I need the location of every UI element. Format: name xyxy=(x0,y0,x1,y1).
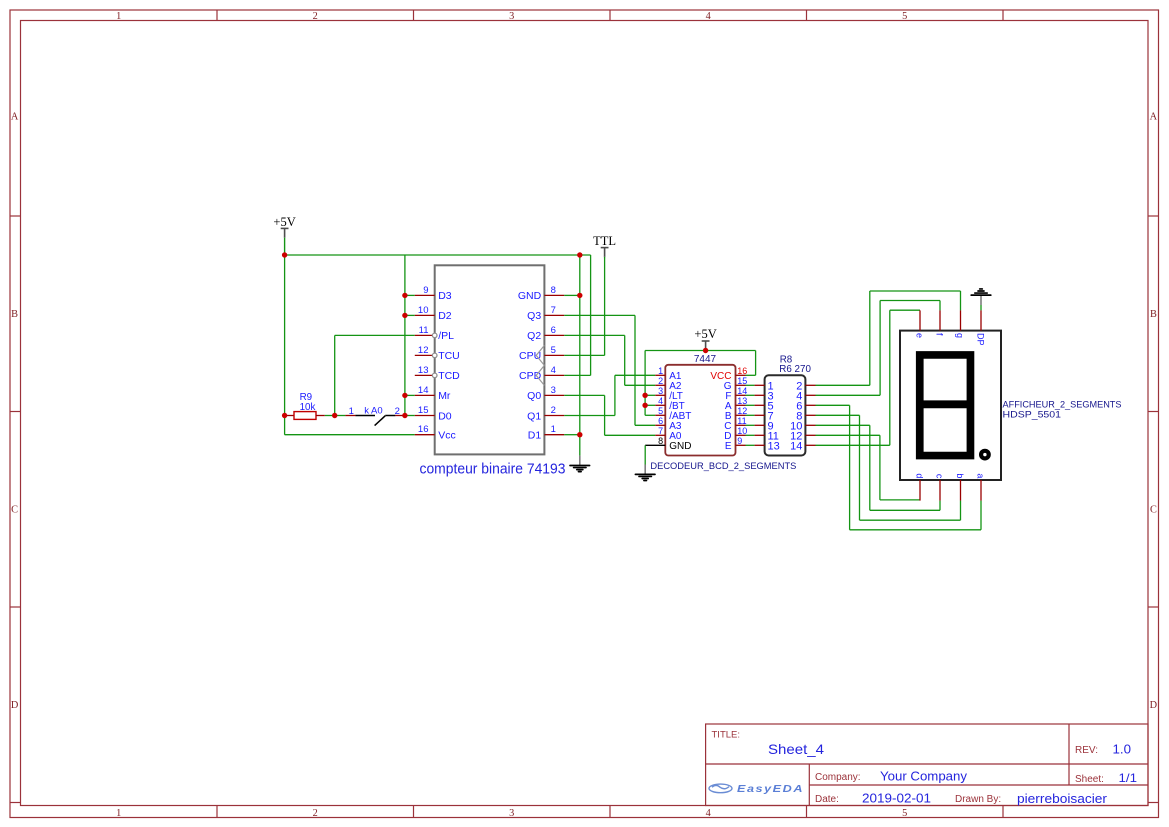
7447 left pin 2 A2 xyxy=(655,384,665,386)
wire pin12 to d xyxy=(816,434,880,436)
wire switch left joint xyxy=(335,415,346,417)
display top pin f xyxy=(939,310,941,330)
display bottom pin c xyxy=(939,480,941,501)
wire +5V horizontal top xyxy=(285,254,591,256)
display top pin e xyxy=(919,310,921,330)
junction xyxy=(577,252,582,257)
svg-text:1: 1 xyxy=(349,406,354,417)
svg-text:2019-02-01: 2019-02-01 xyxy=(862,791,931,806)
svg-text:Mr: Mr xyxy=(438,390,451,402)
74193 left pin 12 TCU xyxy=(415,354,435,356)
74193 clock chevron CPD xyxy=(536,365,544,385)
junction xyxy=(332,413,337,418)
svg-text:Sheet:: Sheet: xyxy=(1075,774,1104,785)
wire 7447 pin to network row 6 xyxy=(746,434,755,436)
svg-text:13: 13 xyxy=(737,396,747,406)
svg-text:CPU: CPU xyxy=(519,350,541,362)
7447 left pin 5 /ABT xyxy=(655,414,665,416)
display bottom pin b xyxy=(960,480,962,501)
wire switch to D0 xyxy=(405,415,415,417)
svg-text:Company:: Company: xyxy=(815,772,861,783)
svg-text:Sheet_4: Sheet_4 xyxy=(768,741,824,757)
74193 left pin 13 TCD xyxy=(415,374,435,376)
svg-text:TCD: TCD xyxy=(438,370,460,382)
wire vertical switch to /PL xyxy=(334,335,336,415)
wire Q1 to A1 xyxy=(564,415,615,417)
svg-text:10: 10 xyxy=(737,426,747,436)
wire D3 stub xyxy=(405,294,415,296)
svg-text:/PL: /PL xyxy=(438,330,454,342)
svg-text:11: 11 xyxy=(737,416,746,426)
svg-text:5: 5 xyxy=(658,406,663,416)
svg-text:1/1: 1/1 xyxy=(1119,771,1138,785)
svg-text:1: 1 xyxy=(116,11,121,22)
svg-text:GND: GND xyxy=(669,441,691,452)
display top pin DP xyxy=(980,310,982,330)
svg-text:C: C xyxy=(11,505,18,516)
74193 right pin 6 Q2 xyxy=(544,334,564,336)
svg-text:compteur binaire 74193: compteur binaire 74193 xyxy=(420,462,566,478)
74193 right pin 4 CPD xyxy=(544,374,564,376)
svg-text:6: 6 xyxy=(658,416,663,426)
74193 right pin 1 D1 xyxy=(544,434,564,436)
wire D2 stub xyxy=(405,314,415,316)
74193 left pin 9 D3 xyxy=(415,294,435,296)
svg-text:Q2: Q2 xyxy=(527,330,541,342)
svg-text:+5V: +5V xyxy=(694,327,716,341)
svg-text:Drawn By:: Drawn By: xyxy=(955,794,1001,805)
svg-text:D3: D3 xyxy=(438,290,452,302)
74193 clock chevron CPU xyxy=(536,345,544,365)
wire Q3 to A3 xyxy=(564,314,635,316)
svg-text:16: 16 xyxy=(418,424,429,435)
wire pin6 to a xyxy=(816,404,850,406)
svg-text:5: 5 xyxy=(902,808,907,819)
wire 7447 pin to network row 4 xyxy=(746,414,755,416)
wire pin10 to c xyxy=(816,424,870,426)
network right pin 10 xyxy=(805,424,815,426)
svg-text:9: 9 xyxy=(423,285,428,296)
wire D1 stub xyxy=(564,434,580,436)
display top pin g xyxy=(960,310,962,330)
svg-text:TTL: TTL xyxy=(593,234,616,248)
wire Q2 to A2 xyxy=(564,334,624,336)
wire pin2 to g xyxy=(816,384,870,386)
svg-text:5: 5 xyxy=(902,11,907,22)
network right pin 14 xyxy=(805,444,815,446)
wire Q0 to A0 xyxy=(564,394,604,396)
network left pin 7 xyxy=(755,414,765,416)
ground symbol under 74193 xyxy=(579,456,581,465)
svg-text:13: 13 xyxy=(768,440,780,452)
svg-text:9: 9 xyxy=(737,436,742,446)
svg-text:D2: D2 xyxy=(438,310,452,322)
svg-text:TITLE:: TITLE: xyxy=(712,730,741,741)
+5V power flag (7447) xyxy=(702,340,710,342)
svg-text:Vcc: Vcc xyxy=(438,430,456,442)
7447 right pin 11 C xyxy=(736,424,746,426)
IC U2 7447 body xyxy=(665,365,735,456)
title block frame xyxy=(706,724,1148,806)
network right pin 2 xyxy=(805,384,815,386)
junction xyxy=(402,293,407,298)
junction xyxy=(402,313,407,318)
svg-text:7: 7 xyxy=(551,305,556,316)
display bottom pin a xyxy=(980,480,982,501)
7447 right pin 14 F xyxy=(736,394,746,396)
junction xyxy=(703,348,708,353)
junction xyxy=(642,403,647,408)
junction xyxy=(282,413,287,418)
svg-text:HDSP_5501: HDSP_5501 xyxy=(1003,409,1062,420)
display bottom pin d xyxy=(919,480,921,501)
svg-text:14: 14 xyxy=(418,385,429,396)
svg-text:EasyEDA: EasyEDA xyxy=(737,784,804,795)
network left pin 13 xyxy=(755,444,765,446)
wire 7447 pin to network row 5 xyxy=(746,424,755,426)
display HDSP body xyxy=(900,331,1001,480)
svg-text:+5V: +5V xyxy=(273,215,295,229)
wire 7447 pin to network row 7 xyxy=(746,444,755,446)
74193 right pin 5 CPU xyxy=(544,354,564,356)
svg-text:B: B xyxy=(11,309,18,320)
svg-text:1: 1 xyxy=(551,424,556,435)
network right pin 8 xyxy=(805,414,815,416)
svg-text:1: 1 xyxy=(658,366,663,376)
junction xyxy=(402,393,407,398)
svg-text:12: 12 xyxy=(737,406,747,416)
network left pin 3 xyxy=(755,394,765,396)
junction xyxy=(577,432,582,437)
7447 left pin 7 A0 xyxy=(655,434,665,436)
resistor R9 xyxy=(285,415,294,417)
wire pin8 to b xyxy=(816,414,860,416)
74193 inversion circles xyxy=(432,333,437,338)
junction xyxy=(642,393,647,398)
74193 right pin 8 GND xyxy=(544,294,564,296)
wire 7447 pin to network row 2 xyxy=(746,394,755,396)
7447 left pin 3 /LT xyxy=(655,394,665,396)
ground symbol above display xyxy=(980,296,982,305)
resistor network R8 body xyxy=(765,375,806,455)
74193 left pin 11 /PL xyxy=(415,334,435,336)
wire +5V to LT/BT/ABT xyxy=(644,351,646,416)
TTL net flag xyxy=(601,247,609,249)
ground symbol under 7447 xyxy=(644,465,646,474)
svg-text:3: 3 xyxy=(551,385,556,396)
junction xyxy=(577,293,582,298)
wire Mr stub xyxy=(405,394,415,396)
svg-text:C: C xyxy=(1150,505,1157,516)
svg-text:e: e xyxy=(915,333,925,338)
svg-text:3: 3 xyxy=(658,386,663,396)
svg-text:15: 15 xyxy=(737,376,747,386)
svg-text:g: g xyxy=(955,333,965,338)
svg-text:B: B xyxy=(1150,309,1157,320)
network right pin 6 xyxy=(805,404,815,406)
svg-text:14: 14 xyxy=(737,386,747,396)
74193 right pin 2 Q1 xyxy=(544,415,564,417)
svg-text:7: 7 xyxy=(658,426,663,436)
junction xyxy=(282,252,287,257)
74193 left pin 14 Mr xyxy=(415,394,435,396)
network left pin 1 xyxy=(755,384,765,386)
wire /PL horizontal xyxy=(335,334,415,336)
wire pin14 to e xyxy=(816,444,890,446)
7447 left pin 6 A3 xyxy=(655,424,665,426)
switch k A0 xyxy=(345,415,355,417)
svg-text:7447: 7447 xyxy=(694,354,717,365)
svg-text:1.0: 1.0 xyxy=(1113,742,1132,756)
display decimal point xyxy=(979,449,991,461)
7447 right pin 15 G xyxy=(736,384,746,386)
svg-text:Your Company: Your Company xyxy=(880,769,968,784)
wire ground vertical xyxy=(579,255,581,456)
svg-text:11: 11 xyxy=(419,325,429,336)
svg-text:pierreboisacier: pierreboisacier xyxy=(1017,791,1108,806)
svg-text:D: D xyxy=(11,700,19,711)
7447 right pin 16 VCC xyxy=(736,374,746,376)
svg-text:A: A xyxy=(11,112,19,123)
svg-text:D1: D1 xyxy=(528,430,542,442)
EasyEDA logo xyxy=(709,784,732,793)
wire resistor to switch xyxy=(325,415,335,417)
IC U1 74193 body xyxy=(435,265,545,454)
svg-text:13: 13 xyxy=(418,365,429,376)
svg-text:4: 4 xyxy=(551,365,556,376)
7447 right pin 13 A xyxy=(736,404,746,406)
network left pin 9 xyxy=(755,424,765,426)
wire 7447 GND down xyxy=(644,445,646,464)
svg-text:4: 4 xyxy=(706,808,711,819)
7447 left pin 1 A1 xyxy=(655,374,665,376)
svg-text:DECODEUR_BCD_2_SEGMENTS: DECODEUR_BCD_2_SEGMENTS xyxy=(650,461,796,472)
network right pin 12 xyxy=(805,434,815,436)
svg-text:R6 270: R6 270 xyxy=(779,364,811,375)
svg-text:c: c xyxy=(935,474,945,479)
svg-text:REV:: REV: xyxy=(1075,745,1098,756)
svg-text:4: 4 xyxy=(706,11,711,22)
junction xyxy=(402,413,407,418)
+5V power flag (left) xyxy=(281,227,289,229)
svg-text:8: 8 xyxy=(551,285,556,296)
svg-text:1: 1 xyxy=(116,808,121,819)
74193 left pin 16 Vcc xyxy=(415,434,435,436)
svg-text:3: 3 xyxy=(509,11,514,22)
wire CPU to TTL xyxy=(564,354,604,356)
svg-text:Date:: Date: xyxy=(815,794,839,805)
svg-text:Q3: Q3 xyxy=(527,310,541,322)
wire +5V to VCC16 xyxy=(755,351,757,376)
74193 left pin 15 D0 xyxy=(415,415,435,417)
7447 left pin 4 /BT xyxy=(655,404,665,406)
svg-text:a: a xyxy=(976,473,986,478)
wire Vcc bottom horizontal xyxy=(285,434,415,436)
network left pin 11 xyxy=(755,434,765,436)
wire 7447 pin to network row 3 xyxy=(746,404,755,406)
svg-text:k A0: k A0 xyxy=(364,406,383,417)
svg-text:10: 10 xyxy=(418,305,429,316)
svg-text:D: D xyxy=(1150,700,1158,711)
svg-text:A: A xyxy=(1150,112,1158,123)
svg-text:8: 8 xyxy=(658,436,663,446)
svg-text:12: 12 xyxy=(418,345,429,356)
svg-text:d: d xyxy=(915,473,925,478)
network right pin 4 xyxy=(805,394,815,396)
svg-text:2: 2 xyxy=(551,405,556,416)
svg-text:15: 15 xyxy=(418,405,429,416)
svg-text:DP: DP xyxy=(976,333,986,346)
svg-text:2: 2 xyxy=(313,808,318,819)
wire 7447 pin to network row 1 xyxy=(746,384,755,386)
74193 right pin 7 Q3 xyxy=(544,314,564,316)
7447 left pin 8 GND xyxy=(645,444,665,446)
wire DP to ground xyxy=(980,305,982,310)
svg-text:2: 2 xyxy=(658,376,663,386)
svg-text:14: 14 xyxy=(790,440,802,452)
svg-text:Q0: Q0 xyxy=(527,390,541,402)
network left pin 5 xyxy=(755,404,765,406)
wire vertical to D3/D2/Mr/D0 xyxy=(404,255,406,416)
wire CPD up xyxy=(564,374,590,376)
7447 right pin 9 E xyxy=(736,444,746,446)
svg-text:2: 2 xyxy=(313,11,318,22)
svg-text:16: 16 xyxy=(737,366,747,376)
wire +5V 7447 horizontal xyxy=(645,350,756,352)
7447 right pin 10 D xyxy=(736,434,746,436)
svg-text:Q1: Q1 xyxy=(527,410,541,422)
svg-text:b: b xyxy=(955,473,965,478)
svg-text:GND: GND xyxy=(518,290,542,302)
svg-text:2: 2 xyxy=(395,406,400,417)
svg-text:E: E xyxy=(725,441,732,452)
74193 right pin 3 Q0 xyxy=(544,394,564,396)
display segment digit 8 xyxy=(916,351,974,459)
wire GND8 stub xyxy=(564,294,580,296)
74193 left pin 10 D2 xyxy=(415,314,435,316)
svg-text:TCU: TCU xyxy=(438,350,460,362)
svg-text:4: 4 xyxy=(658,396,663,406)
wire pin4 to f xyxy=(816,394,881,396)
svg-text:5: 5 xyxy=(551,345,556,356)
7447 right pin 12 B xyxy=(736,414,746,416)
svg-text:D0: D0 xyxy=(438,410,452,422)
svg-text:3: 3 xyxy=(509,808,514,819)
svg-text:6: 6 xyxy=(551,325,556,336)
wire vertical +5V left xyxy=(284,255,286,435)
